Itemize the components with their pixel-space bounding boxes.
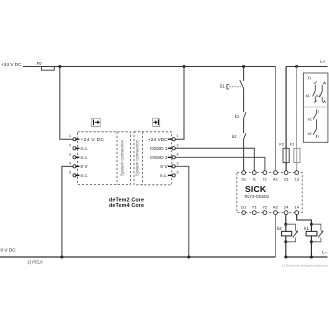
box1 pin 3 terminal [69, 152, 88, 161]
contactor coil K1 [297, 215, 324, 258]
svg-text:System connection: System connection [120, 139, 125, 176]
svg-text:n.c.: n.c. [81, 156, 89, 161]
svg-text:0 V: 0 V [81, 164, 89, 170]
fuse F1 [290, 67, 300, 171]
wire from rail down to box1 pin1 [60, 67, 73, 140]
svg-text:13: 13 [294, 176, 299, 181]
svg-text:RLY3-OSSD2: RLY3-OSSD2 [245, 194, 270, 199]
wire L- rail [286, 256, 328, 258]
safety relay U1 RLY3-OSSD2 (dashed) [237, 173, 302, 213]
svg-text:2: 2 [177, 143, 179, 147]
box1 pin 5 terminal [69, 170, 88, 179]
junction dot K1 on L- [310, 256, 313, 259]
svg-text:S1: S1 [220, 84, 226, 89]
svg-text:1: 1 [69, 134, 71, 138]
svg-text:k1: k1 [308, 118, 312, 122]
svg-text:D1: D1 [241, 204, 247, 209]
contact k1 (EDM chain) [235, 112, 246, 133]
wire top +24V rail [23, 66, 276, 68]
junction dot K2 on L- [284, 256, 287, 259]
svg-text:SICK: SICK [245, 184, 267, 194]
svg-text:5: 5 [69, 170, 71, 174]
switch S1 (reset) [220, 67, 244, 113]
box2 pin 2 terminal OSSD 1 [150, 143, 179, 152]
svg-text:0 V DC: 0 V DC [1, 247, 17, 252]
box1 pin 2 terminal [69, 143, 88, 152]
junction dot box1 0V [60, 256, 63, 259]
svg-text:2: 2 [69, 143, 71, 147]
inset contact k1 (series) [308, 110, 320, 129]
svg-text:S1: S1 [241, 176, 247, 181]
relay terminal A2 [273, 204, 279, 214]
svg-text:k2: k2 [308, 132, 312, 136]
wire from box1 pin4 (0V) down to 0V rail [62, 166, 73, 257]
contact k2 (EDM chain) [232, 133, 246, 170]
inset contact k1 (parallel) [306, 82, 317, 103]
inset contact k2 (parallel) [316, 82, 325, 104]
svg-text:F1: F1 [290, 142, 295, 147]
wire box2 0V down to 0V rail [175, 166, 189, 257]
box1 pin 4 terminal [69, 161, 89, 170]
svg-text:3: 3 [177, 161, 179, 165]
svg-text:deTem4 Core: deTem4 Core [109, 203, 144, 209]
svg-text:1) External relays/contactors: 1) External relays/contactors [282, 264, 328, 268]
relay terminal 13 [294, 171, 299, 182]
deTem receiver box (dashed) [134, 132, 172, 185]
fuse F0 [37, 61, 55, 70]
svg-text:+24 V DC: +24 V DC [81, 137, 105, 143]
junction dot S1 branch [242, 65, 245, 68]
svg-text:4: 4 [69, 161, 71, 165]
wire A2 down to 0V rail [275, 215, 277, 258]
relay terminal 14 [294, 204, 299, 214]
deTem sender box (dashed) [78, 132, 131, 185]
svg-text:n.c.: n.c. [160, 174, 168, 179]
svg-text:2) PELV: 2) PELV [27, 259, 42, 264]
svg-text:k2: k2 [277, 226, 282, 231]
svg-text:23: 23 [284, 176, 289, 181]
svg-text:+24 V DC: +24 V DC [1, 62, 22, 67]
svg-text:0 V: 0 V [160, 164, 168, 170]
svg-text:5: 5 [177, 170, 179, 174]
svg-text:k2: k2 [232, 134, 237, 139]
relay terminal I2 [263, 171, 267, 182]
svg-text:3: 3 [69, 152, 71, 156]
receiver icon above box2 [153, 118, 161, 127]
junction dot box2 0V [187, 256, 190, 259]
svg-text:OSSD 1: OSSD 1 [150, 146, 168, 152]
contactor coil K2 [277, 215, 298, 258]
wire OSSD1 to relay I1 [175, 148, 254, 170]
svg-text:14: 14 [294, 204, 299, 209]
relay terminal 24 [284, 204, 289, 214]
inset detail box 1) [303, 73, 328, 142]
svg-text:Y1: Y1 [252, 204, 258, 209]
svg-text:F0: F0 [37, 61, 43, 66]
relay terminal A1 [273, 171, 279, 182]
box1 pin 1 terminal [69, 134, 105, 143]
wire 0V rail [0, 256, 276, 258]
svg-text:1: 1 [177, 134, 179, 138]
junction dot at F0 branch [58, 65, 61, 68]
svg-text:24: 24 [284, 204, 289, 209]
wire top rail corner down to relay A1 [275, 67, 277, 171]
wire L+ rail [286, 66, 327, 68]
relay terminal S1 [241, 171, 247, 182]
svg-text:System connection: System connection [134, 139, 139, 176]
relay terminal I1 [252, 171, 256, 182]
relay terminal Y1 [252, 204, 258, 214]
box2 pin 4 terminal OSSD 2 [150, 152, 179, 161]
svg-text:k1: k1 [304, 226, 309, 231]
svg-text:n.c.: n.c. [81, 174, 89, 179]
relay terminal Y2 [262, 204, 268, 214]
svg-text:OSSD 2: OSSD 2 [150, 155, 168, 161]
svg-text:A2: A2 [273, 204, 279, 209]
box2 pin 3 terminal 0V [160, 161, 178, 170]
svg-text:k1: k1 [235, 114, 240, 119]
svg-text:F2: F2 [279, 142, 284, 147]
inset divider [303, 106, 328, 108]
svg-text:+24 VDC: +24 VDC [148, 137, 168, 143]
svg-text:Y2: Y2 [262, 204, 268, 209]
box2 pin 5 terminal [160, 170, 179, 179]
wire OSSD2 to relay I2 [175, 157, 265, 170]
svg-text:L−: L− [322, 250, 327, 255]
svg-text:n.c.: n.c. [81, 147, 89, 152]
fuse F2 [279, 67, 289, 171]
svg-text:L+: L+ [320, 59, 325, 64]
relay terminal 23 [284, 171, 289, 182]
relay terminal D1 [241, 204, 247, 214]
box2 pin 1 terminal [148, 134, 179, 143]
inset contact k2 (series) [308, 129, 320, 139]
junction dot L+ to F1 [295, 65, 298, 68]
svg-text:A1: A1 [273, 176, 279, 181]
svg-text:4: 4 [177, 152, 179, 156]
junction dot box2 pin1 branch [183, 65, 186, 68]
wire box2 pin1 up to rail [175, 67, 184, 140]
sender icon above box1 [91, 118, 101, 126]
